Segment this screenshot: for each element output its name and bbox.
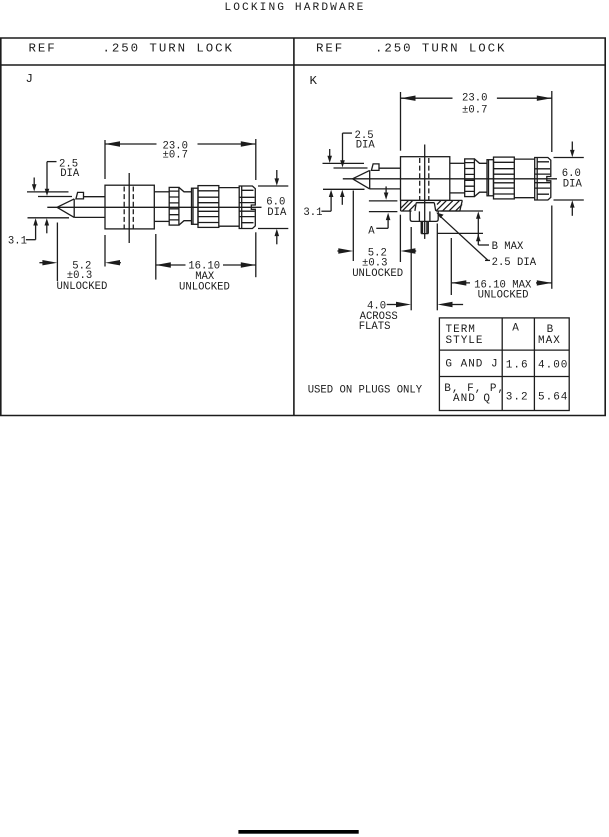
svg-text:REF: REF xyxy=(29,42,57,56)
svg-text:UNLOCKED: UNLOCKED xyxy=(179,281,230,293)
svg-text:A: A xyxy=(512,323,520,335)
svg-text:AND Q: AND Q xyxy=(453,393,491,405)
svg-text:UNLOCKED: UNLOCKED xyxy=(352,268,403,280)
svg-text:USED ON PLUGS ONLY: USED ON PLUGS ONLY xyxy=(308,385,423,397)
svg-text:UNLOCKED: UNLOCKED xyxy=(57,281,108,293)
svg-text:B MAX: B MAX xyxy=(492,241,524,253)
svg-text:J: J xyxy=(26,72,35,86)
svg-text:K: K xyxy=(310,74,319,88)
svg-text:4.00: 4.00 xyxy=(538,360,568,372)
svg-text:G AND J: G AND J xyxy=(445,358,498,370)
svg-text:UNLOCKED: UNLOCKED xyxy=(478,289,529,301)
svg-text:REF: REF xyxy=(316,42,344,56)
svg-text:.250 TURN LOCK: .250 TURN LOCK xyxy=(375,42,506,56)
svg-text:LOCKING HARDWARE: LOCKING HARDWARE xyxy=(224,2,365,14)
svg-text:.250 TURN LOCK: .250 TURN LOCK xyxy=(103,42,234,56)
svg-text:±0.7: ±0.7 xyxy=(462,104,487,116)
svg-text:5.64: 5.64 xyxy=(538,392,568,404)
svg-text:MAX: MAX xyxy=(538,335,561,347)
svg-text:3.2: 3.2 xyxy=(506,392,529,404)
svg-text:1.6: 1.6 xyxy=(506,360,529,372)
svg-text:FLATS: FLATS xyxy=(359,321,391,333)
svg-text:23.0: 23.0 xyxy=(462,93,487,105)
svg-text:STYLE: STYLE xyxy=(446,335,484,347)
svg-text:±0.7: ±0.7 xyxy=(163,149,188,161)
svg-text:A: A xyxy=(368,226,375,238)
svg-text:2.5 DIA: 2.5 DIA xyxy=(492,257,537,269)
